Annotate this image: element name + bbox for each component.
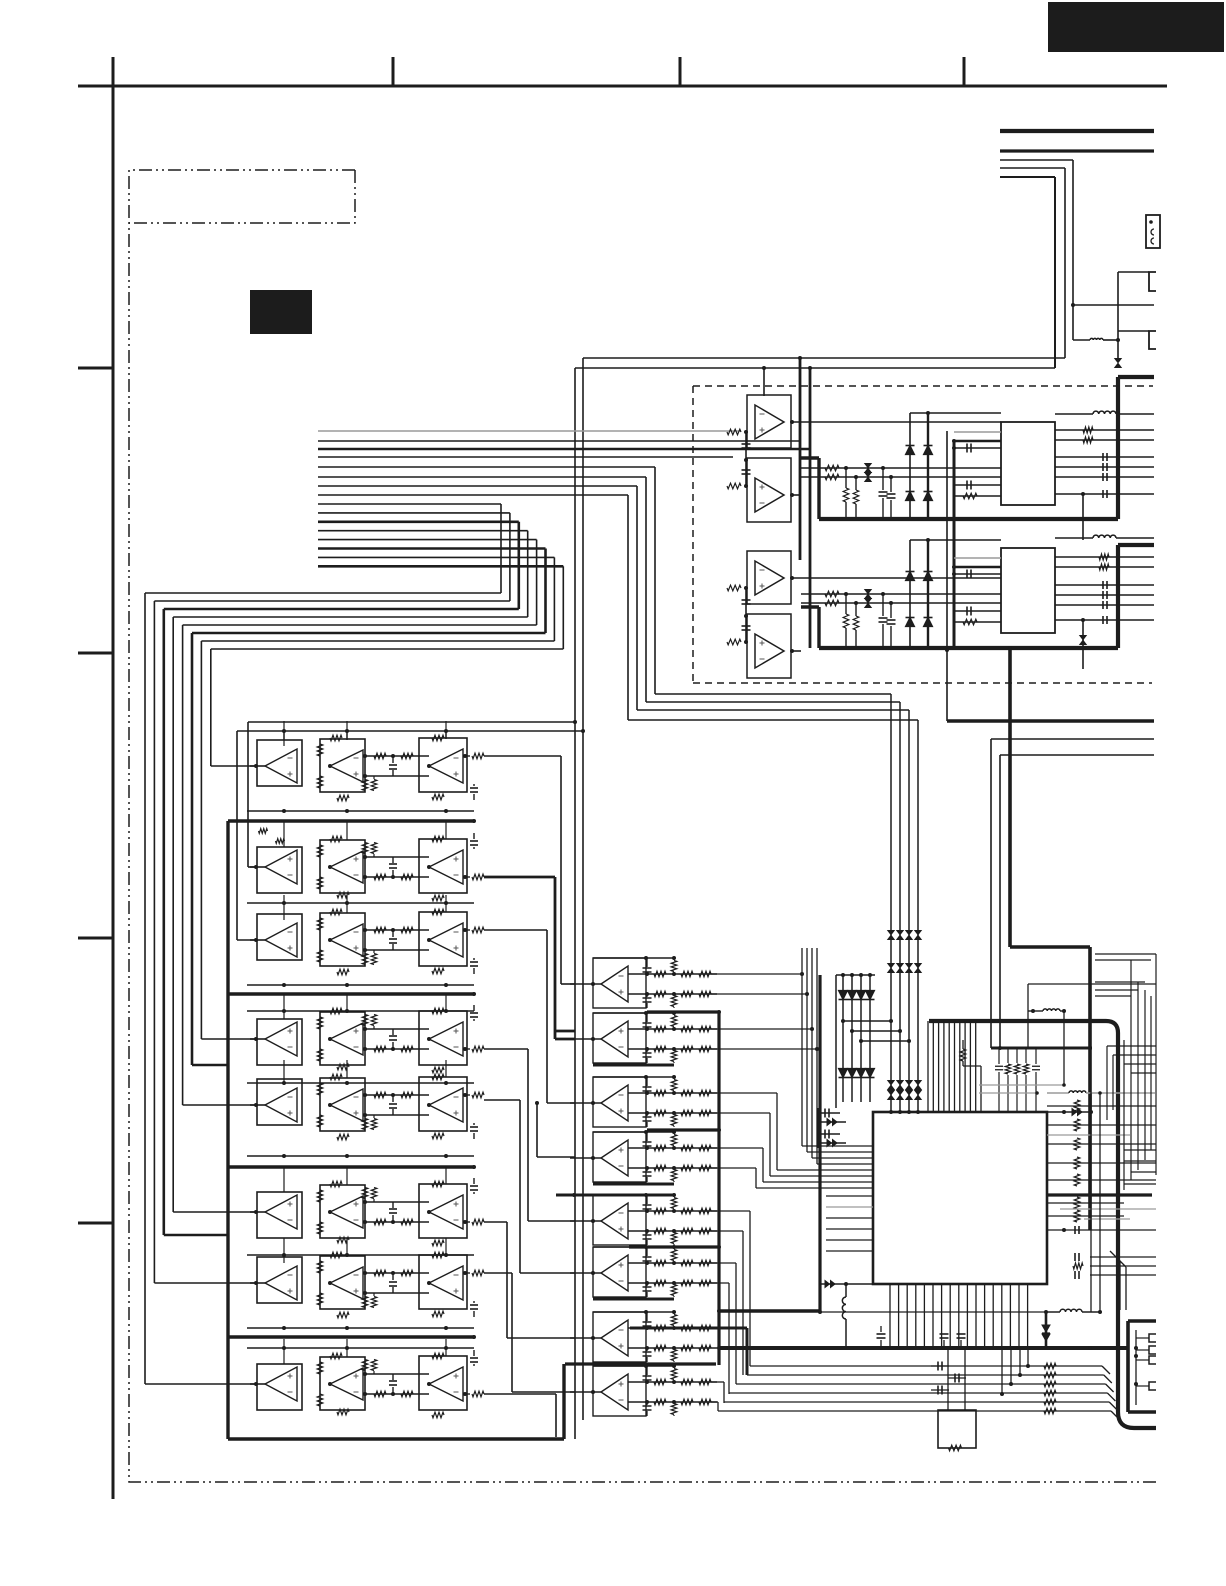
capacitor to bus — [882, 468, 884, 490]
wire filter output — [484, 1099, 520, 1101]
wire — [1028, 983, 1156, 985]
resistor — [317, 1222, 323, 1234]
main thick ground bus — [719, 1346, 1129, 1350]
thick bus corner into amp block — [1118, 375, 1154, 379]
wire — [1118, 271, 1149, 273]
resistor feedback — [432, 1240, 444, 1246]
resistor — [371, 1188, 377, 1199]
resistor ladder lower — [671, 1233, 677, 1244]
op-amp buffer B — [747, 614, 791, 678]
wires IC B right pins — [1055, 537, 1093, 539]
resistor — [362, 843, 368, 854]
wire branch to driver 4 — [535, 1101, 539, 1105]
wire — [745, 588, 747, 642]
wire — [801, 467, 1001, 469]
resistor — [699, 1325, 711, 1331]
resistor ladder upper — [671, 1135, 677, 1146]
connector CN top-right — [1146, 215, 1160, 248]
wire with resistor — [736, 1383, 1106, 1385]
capacitor upper — [643, 1086, 652, 1088]
resistor feedback — [330, 1353, 342, 1359]
resistor — [1099, 554, 1109, 560]
op-amp buffer A — [747, 551, 791, 604]
inductor above IC — [1043, 1009, 1060, 1011]
grey rails above IC — [979, 1084, 1064, 1086]
connector pin — [1149, 1334, 1156, 1342]
resistor feedback — [330, 1252, 342, 1258]
zener at IC top right — [1047, 1111, 1092, 1113]
resistor feedback — [330, 1008, 342, 1014]
wire inter-stage — [365, 755, 429, 757]
wire to connector pin — [1073, 304, 1154, 306]
wire inter-stage — [365, 1373, 429, 1375]
connector pin — [1149, 1356, 1156, 1364]
wire filter output — [484, 929, 547, 931]
black reference rectangle — [250, 290, 312, 334]
resistor — [1083, 427, 1093, 433]
capacitor — [392, 930, 394, 937]
resistor feedback — [432, 1412, 444, 1418]
capacitor lower — [643, 1052, 652, 1054]
capacitor — [966, 607, 968, 616]
wire stubs — [283, 721, 285, 746]
resistor — [401, 1391, 413, 1397]
wire with resistor — [747, 1374, 1104, 1376]
resistor — [681, 1165, 693, 1171]
resistor to ground — [845, 594, 847, 614]
resistor feedback — [337, 1134, 349, 1140]
capacitor upper — [643, 1375, 652, 1377]
filter row 7 op-amp C — [419, 1255, 467, 1309]
hybrid amp module dashed outline — [693, 385, 1153, 387]
thick top bus with rounded corner — [929, 1021, 1156, 1428]
resistor — [317, 845, 323, 857]
resistor — [681, 1260, 693, 1266]
wire output with resistor — [463, 1048, 470, 1050]
diode under inductor — [1045, 1312, 1048, 1348]
wire op-amp outputs — [792, 421, 1001, 423]
wire — [1000, 176, 1055, 178]
wire output with resistor — [463, 1221, 470, 1223]
resistor feedback — [337, 892, 349, 898]
resistor — [401, 1046, 413, 1052]
capacitors under ground bus — [937, 1362, 939, 1371]
zener pair — [865, 590, 871, 594]
filter row 1 op-amp C — [419, 738, 467, 792]
filter row 7 op-amp B — [320, 1256, 365, 1309]
resistor — [374, 874, 386, 880]
resistor ladder upper — [671, 1016, 677, 1027]
wire top rail — [593, 1076, 674, 1078]
resistor — [362, 1297, 368, 1308]
wire filter output — [484, 1048, 528, 1050]
filter row 2 op-amp A — [254, 865, 258, 869]
capacitor lower — [643, 1116, 652, 1118]
resistor — [371, 1360, 377, 1371]
wire feedback pair upper — [583, 357, 1065, 359]
filter row 6 op-amp C — [419, 1184, 467, 1238]
thick bus channel B — [801, 605, 819, 608]
resistor — [374, 1092, 386, 1098]
grey right pin — [1047, 1134, 1130, 1136]
wire with capacitor — [1055, 584, 1154, 586]
wire with capacitor — [1055, 604, 1154, 606]
capacitor — [742, 625, 751, 627]
capacitor upper — [643, 967, 652, 969]
capacitor lower — [643, 997, 652, 999]
capacitor — [473, 1364, 475, 1366]
resistor — [699, 1399, 711, 1405]
resistor input — [727, 429, 741, 435]
capacitor — [742, 469, 751, 471]
wire filter output — [484, 755, 561, 757]
resistor — [1099, 564, 1109, 570]
diode clamp column — [909, 413, 911, 519]
wire top rail — [593, 1246, 674, 1248]
resistor feedback — [432, 968, 444, 974]
resistor feedback — [432, 909, 444, 915]
wire — [1000, 149, 1154, 152]
wire — [1118, 330, 1149, 332]
resistor — [825, 591, 839, 597]
resistor — [654, 971, 666, 977]
capacitor upper — [643, 1204, 652, 1206]
wire — [1073, 339, 1090, 341]
signal bundle upper (8 wires) — [318, 431, 810, 720]
resistor — [699, 971, 711, 977]
wire — [991, 738, 1154, 740]
resistor — [401, 927, 413, 933]
right tangle verticals — [1106, 1046, 1108, 1120]
thick power bus right — [947, 719, 1154, 723]
capacitor — [473, 847, 475, 849]
resistor — [681, 1228, 693, 1234]
zener diode on bus entry — [1115, 359, 1121, 363]
wire feedback pair lower — [575, 367, 1055, 369]
filter row 1 op-amp B — [320, 739, 365, 792]
wire top rail — [593, 1131, 674, 1133]
resistor feedback — [432, 1008, 444, 1014]
resistor feedback — [337, 795, 349, 801]
resistor ladder upper — [671, 1315, 677, 1326]
thick stub right of IC — [1047, 1193, 1152, 1196]
wire with resistor — [750, 1365, 1102, 1367]
resistor — [681, 1046, 693, 1052]
resistor feedback — [337, 1064, 349, 1070]
resistor feedback — [432, 1067, 444, 1073]
small zener marks at group corner — [259, 829, 268, 834]
resistor — [371, 843, 377, 854]
wire filter output — [484, 1221, 507, 1223]
wire inter-stage — [365, 1028, 429, 1030]
thick buses driver column — [647, 1010, 719, 1013]
wire — [1000, 754, 1154, 756]
resistor to ground — [845, 468, 847, 488]
wire rails — [628, 1327, 717, 1329]
wire top rail — [593, 1012, 674, 1014]
wire filter output — [484, 1272, 512, 1274]
capacitor to bus — [890, 477, 892, 492]
wire rails — [628, 973, 717, 975]
resistor — [401, 1219, 413, 1225]
diode clamp column — [927, 413, 929, 519]
wire top rail — [593, 1365, 674, 1367]
resistor ladder lower — [671, 1350, 677, 1361]
zener into IC ground — [819, 1283, 873, 1285]
resistor — [654, 1165, 666, 1171]
thick cell bottom — [593, 1183, 674, 1186]
driver op-amp 6 — [593, 1247, 646, 1297]
resistor — [362, 1015, 368, 1026]
capacitor upper — [643, 1141, 652, 1143]
wire output with resistor — [463, 1094, 470, 1096]
resistor — [317, 1362, 323, 1374]
capacitor to bus — [882, 594, 884, 616]
wire run to zener column — [655, 693, 891, 695]
capacitor — [966, 481, 968, 490]
driver op-amp 8 — [593, 1366, 646, 1416]
resistor — [317, 744, 323, 756]
wire — [1055, 439, 1154, 441]
resistor — [681, 1145, 693, 1151]
connector pin — [1149, 1382, 1156, 1390]
IC top pin wires — [927, 1021, 929, 1112]
resistor — [681, 1090, 693, 1096]
resistor — [317, 918, 323, 930]
resistor — [362, 1360, 368, 1371]
connector pin — [1149, 1346, 1156, 1354]
inductor output filter — [1044, 1310, 1048, 1314]
wires IC A right pins — [1055, 413, 1093, 415]
wires drivers 3-4 to main IC — [711, 1092, 777, 1094]
wire driver2 thick entry — [555, 1038, 575, 1041]
wire top rail — [593, 957, 674, 959]
resistor input B — [727, 483, 741, 489]
resistor — [317, 1394, 323, 1406]
IC hybrid driver A — [1001, 422, 1055, 505]
driver op-amp 3 — [593, 1077, 646, 1127]
resistor ladder upper — [671, 1198, 677, 1209]
resistor — [699, 1260, 711, 1266]
resistor — [654, 1345, 666, 1351]
wire rails — [628, 1262, 717, 1264]
resistor — [699, 1090, 711, 1096]
resistor ladder upper — [671, 961, 677, 972]
driver op-amp 4 — [593, 1132, 646, 1182]
capacitor to bus — [890, 603, 892, 618]
wire inter-stage — [365, 1201, 429, 1203]
resistor — [681, 1325, 693, 1331]
resistor — [317, 1115, 323, 1127]
capacitor — [392, 1387, 394, 1394]
wire top rail — [593, 1194, 674, 1196]
resistor ladder lower — [671, 1051, 677, 1062]
filter row 6 op-amp A — [254, 1210, 258, 1214]
capacitor — [392, 1095, 394, 1102]
wire inter-stage — [365, 856, 429, 858]
decoupling cluster left of IC — [824, 1109, 826, 1118]
capacitor — [473, 1301, 475, 1303]
resistor — [317, 1293, 323, 1305]
resistor — [654, 1026, 666, 1032]
signal bundle lower (8 wires to filter rows) — [145, 504, 563, 1384]
resistor feedback — [330, 909, 342, 915]
resistor — [681, 1399, 693, 1405]
driver op-amp 5 — [593, 1195, 646, 1245]
resistor — [699, 1280, 711, 1286]
wire — [1000, 167, 1065, 169]
wire rails — [628, 1381, 717, 1383]
resistor ladder lower — [671, 1115, 677, 1126]
filter row 6 op-amp B — [320, 1185, 365, 1238]
wire from amp block down — [946, 431, 948, 721]
resistor — [317, 950, 323, 962]
diode array — [842, 975, 844, 1102]
resistor — [681, 1208, 693, 1214]
resistor — [681, 1345, 693, 1351]
wire — [745, 432, 747, 486]
resistor — [371, 1297, 377, 1308]
resistor — [362, 780, 368, 791]
resistor — [317, 877, 323, 889]
wire rails — [628, 1092, 717, 1094]
resistor — [825, 474, 839, 480]
filter row 5 op-amp A — [254, 1103, 258, 1107]
main DSP IC — [873, 1112, 1047, 1284]
diode clamp column — [909, 540, 911, 648]
capacitor — [473, 1123, 475, 1125]
resistor — [317, 1049, 323, 1061]
resistor feedback — [337, 1237, 349, 1243]
resistor — [681, 1110, 693, 1116]
wire filter output — [484, 1393, 556, 1395]
resistor — [699, 1208, 711, 1214]
inter-row rails — [247, 810, 474, 812]
capacitor — [473, 1192, 475, 1194]
wires drivers 5-8 to output bundle — [711, 1210, 750, 1212]
resistor — [401, 1270, 413, 1276]
right tangle horizontals — [1095, 953, 1156, 955]
parts above IC — [960, 1049, 966, 1061]
resistor feedback — [432, 735, 444, 741]
capacitor — [392, 870, 394, 877]
wire bus to off-page top right — [1000, 129, 1154, 133]
resistor — [654, 1325, 666, 1331]
wire output with resistor — [463, 876, 470, 878]
resistor — [317, 776, 323, 788]
resistor feedback — [337, 1312, 349, 1318]
resistor — [374, 753, 386, 759]
resistor feedback — [330, 1074, 342, 1080]
capacitor — [392, 1215, 394, 1222]
grey line — [1084, 1218, 1130, 1220]
resistor — [699, 1165, 711, 1171]
resistor feedback — [432, 1353, 444, 1359]
wires IC B left pins — [954, 557, 1001, 559]
resistor to ground — [855, 603, 857, 616]
resistor to ground — [855, 477, 857, 490]
capacitor — [1102, 490, 1104, 498]
filter row 3 op-amp B — [320, 913, 365, 966]
wire rails — [628, 1028, 717, 1030]
resistor — [681, 1379, 693, 1385]
resistor ladder lower — [671, 1170, 677, 1181]
resistor — [681, 991, 693, 997]
resistor feedback — [330, 1181, 342, 1187]
resistor — [371, 780, 377, 791]
resistor — [963, 493, 977, 499]
output connector (bottom right) — [1126, 1321, 1130, 1412]
wire output with resistor — [463, 755, 470, 757]
capacitor — [392, 1042, 394, 1049]
resistor — [401, 874, 413, 880]
resistor feedback — [432, 836, 444, 842]
thick cell bottom — [593, 1298, 674, 1301]
resistor — [699, 1379, 711, 1385]
zener pair — [865, 464, 871, 468]
thick bus channel A — [801, 456, 819, 459]
resistor feedback — [432, 1252, 444, 1258]
thick rail left of IC — [818, 975, 821, 1311]
filter row 4 op-amp C — [419, 1011, 467, 1065]
thick cell bottom — [593, 1064, 674, 1067]
wires drivers 1-2 to main IC (right cascade) — [711, 973, 802, 975]
zener — [1082, 620, 1084, 669]
resistor — [699, 1026, 711, 1032]
driver op-amp 7 — [593, 1312, 646, 1362]
cap-resistor row above IC — [998, 1048, 1000, 1064]
resistor — [699, 1345, 711, 1351]
thick rail above IC — [991, 1047, 1092, 1050]
resistor — [654, 1260, 666, 1266]
wire — [1000, 159, 1073, 161]
IC hybrid driver B — [1001, 548, 1055, 633]
filter row 5 op-amp B — [320, 1078, 365, 1131]
resistor — [654, 1046, 666, 1052]
resistor — [374, 927, 386, 933]
wire — [1055, 619, 1154, 621]
resistor — [1083, 437, 1093, 443]
wire output with resistor — [463, 1393, 470, 1395]
resistor — [699, 991, 711, 997]
caps under IC — [877, 1333, 886, 1335]
capacitor — [1102, 616, 1104, 624]
resistor — [317, 1083, 323, 1095]
wire feeds rows 2-3 from top rails — [247, 722, 249, 867]
node junction — [1071, 303, 1075, 307]
capacitor lower — [643, 1351, 652, 1353]
inductor L (top right) — [1090, 338, 1103, 340]
capacitor — [473, 958, 475, 960]
filter row 2 op-amp C — [419, 839, 467, 893]
resistor — [317, 1261, 323, 1273]
resistor — [362, 1119, 368, 1130]
thick group frame lines — [226, 821, 229, 1439]
wire output with resistor — [463, 1272, 470, 1274]
resistor — [699, 1228, 711, 1234]
resistor feedback — [432, 895, 444, 901]
wire filter output — [484, 876, 555, 879]
wire with resistor — [724, 1401, 1109, 1403]
wire rails — [628, 1147, 717, 1149]
filter row 8 op-amp C — [419, 1356, 467, 1410]
resistor — [825, 600, 839, 606]
wire — [1055, 493, 1154, 495]
board outline (dash-dot border) — [129, 170, 1157, 1482]
connector pin bracket — [1149, 272, 1156, 291]
staircase wires — [843, 1020, 891, 1022]
grey line — [1060, 1208, 1156, 1210]
